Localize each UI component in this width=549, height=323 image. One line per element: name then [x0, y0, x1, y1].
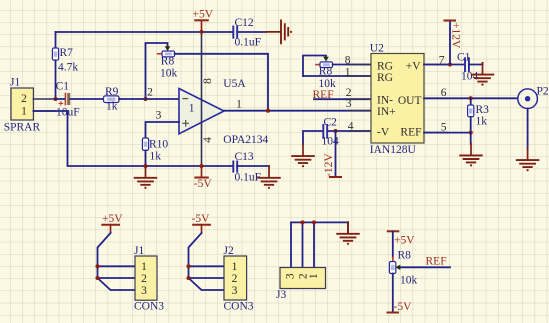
svg-text:REF: REF: [400, 127, 421, 139]
svg-text:+V: +V: [406, 60, 421, 72]
svg-text:1: 1: [236, 99, 242, 111]
svg-text:0.1uF: 0.1uF: [235, 172, 262, 184]
svg-text:J3: J3: [276, 289, 286, 301]
svg-text:2: 2: [141, 273, 147, 285]
svg-text:CON3: CON3: [134, 300, 164, 312]
wire C1 to ground: [469, 63, 482, 65]
svg-text:1: 1: [308, 273, 320, 279]
svg-text:+12V: +12V: [449, 22, 461, 49]
power +5V top rail: [193, 9, 214, 32]
wire U2 pin1: [303, 75, 371, 77]
capacitor C13: [233, 151, 261, 184]
svg-text:J1: J1: [10, 77, 20, 89]
svg-text:10k: 10k: [160, 67, 178, 79]
wire op-amp output to U2 IN+: [224, 110, 371, 112]
ground (J3): [337, 222, 359, 245]
svg-text:R8: R8: [161, 56, 175, 68]
potentiometer R8 10k (U2 gain): [303, 56, 336, 91]
svg-text:IN+: IN+: [377, 106, 396, 118]
svg-text:8: 8: [345, 55, 351, 67]
svg-text:-V: -V: [377, 127, 390, 139]
power -5V (R8 REF pot): [388, 301, 413, 313]
svg-text:3: 3: [156, 110, 162, 122]
wire C13 to ground: [237, 165, 269, 167]
svg-text:3: 3: [285, 273, 297, 279]
ground (C2): [292, 144, 314, 167]
wire U2 pin6 OUT to P2: [424, 97, 518, 99]
node input junction: [53, 97, 57, 101]
connector J1 CON3: [134, 245, 164, 312]
resistor R3 1k: [468, 98, 490, 132]
svg-text:3: 3: [346, 98, 352, 110]
svg-text:R10: R10: [149, 139, 168, 151]
svg-text:1: 1: [141, 261, 147, 273]
wire R7 bottom to input node: [55, 60, 57, 99]
svg-text:REF: REF: [426, 256, 447, 268]
svg-text:3: 3: [141, 285, 147, 297]
node feedback junction: [143, 97, 147, 101]
node J3 pin2 junction: [300, 220, 304, 224]
svg-text:-5V: -5V: [194, 178, 213, 190]
wire U2 pin8: [333, 64, 371, 66]
ground (R3/REF): [460, 144, 482, 167]
svg-text:4.7k: 4.7k: [58, 61, 78, 73]
resistor R9 1k: [104, 86, 120, 112]
wire +5V rail to C12: [56, 31, 234, 33]
svg-text:4: 4: [202, 137, 214, 143]
svg-text:SPRAR: SPRAR: [4, 122, 41, 134]
power -12V: [323, 131, 341, 177]
wire REF arrow to R8 wiper: [395, 256, 450, 270]
svg-text:IN-: IN-: [377, 95, 393, 107]
capacitor C1 10uF (electrolytic): [56, 81, 104, 119]
svg-text:2: 2: [147, 87, 153, 99]
svg-text:RG: RG: [377, 72, 393, 84]
capacitor C12: [233, 17, 261, 48]
wire +5V to J1 pins: [98, 233, 136, 290]
connector P2: [518, 86, 549, 109]
svg-text:-5V: -5V: [192, 213, 211, 225]
ground (P2): [517, 148, 539, 171]
svg-text:R7: R7: [60, 47, 74, 59]
svg-text:-5V: -5V: [394, 301, 413, 313]
wire to ground below R3: [470, 133, 472, 144]
connector J2 CON3: [224, 245, 254, 312]
svg-text:R3: R3: [476, 104, 490, 116]
power +12V: [445, 21, 462, 65]
node J2 pin1 junction: [186, 264, 190, 268]
wire U2 pin2 REF: [314, 98, 371, 100]
svg-text:OUT: OUT: [398, 95, 422, 107]
node -12V junction: [333, 129, 337, 133]
node output junction: [266, 109, 270, 113]
potentiometer R8 10k (REF): [389, 231, 417, 312]
svg-text:1k: 1k: [150, 150, 162, 162]
svg-text:RG: RG: [377, 60, 393, 72]
svg-text:0.1uF: 0.1uF: [235, 36, 262, 48]
svg-text:6: 6: [441, 87, 447, 99]
wire J1 pin1 to lower rail: [33, 111, 233, 166]
svg-text:CON3: CON3: [224, 300, 254, 312]
node R3 top junction: [469, 96, 473, 100]
svg-text:3: 3: [232, 285, 238, 297]
node J1 pin2 junction: [95, 276, 99, 280]
node op-amp pin8 power junction: [199, 30, 203, 34]
svg-text:1: 1: [21, 105, 27, 117]
svg-text:1: 1: [232, 261, 238, 273]
svg-text:8: 8: [202, 78, 214, 84]
power -5V (J2 CON3): [192, 213, 211, 233]
svg-text:2: 2: [346, 87, 352, 99]
svg-text:C2: C2: [324, 117, 338, 129]
connector J3: [276, 268, 326, 301]
wire U2 pin5 REF: [424, 132, 471, 134]
op-amp U5A OPA2134: [147, 32, 268, 166]
svg-text:U5A: U5A: [223, 78, 246, 90]
capacitor C2 104: [322, 117, 340, 148]
node lower rail ground junction: [143, 164, 147, 168]
node +12V junction: [448, 62, 452, 66]
ground (C13): [258, 166, 280, 189]
node REF ground junction: [469, 131, 473, 135]
wire C2 to U2 pin4: [327, 130, 371, 132]
wire R7 top to rail: [55, 32, 57, 48]
ground (+12V C1): [472, 63, 494, 86]
svg-text:1: 1: [345, 66, 351, 78]
resistor R7 4.7k: [52, 47, 78, 73]
wire P2 to ground: [527, 109, 529, 149]
node J2 pin2 junction: [186, 276, 190, 280]
svg-text:OPA2134: OPA2134: [223, 134, 268, 146]
svg-text:-12V: -12V: [323, 153, 335, 177]
svg-text:104: 104: [461, 71, 479, 83]
wire U2 pin4 to C2: [303, 131, 323, 145]
resistor R10 1k: [142, 138, 168, 166]
svg-text:IAN128U: IAN128U: [370, 144, 417, 156]
IC U2 IAN128U: [345, 43, 447, 156]
svg-text:10k: 10k: [400, 274, 418, 286]
node op-amp pin4 junction: [199, 164, 203, 168]
potentiometer R8 10k (feedback): [158, 46, 178, 79]
capacitor C1 104 (U2 supply): [457, 51, 479, 82]
wire R9 to op-amp pin2: [119, 98, 179, 100]
svg-text:4: 4: [348, 121, 354, 133]
svg-text:5: 5: [441, 121, 447, 133]
wire J3 pins to ground rail: [291, 222, 348, 267]
svg-text:1k: 1k: [476, 115, 488, 127]
power -5V (op-amp): [194, 166, 213, 190]
svg-text:C1: C1: [56, 81, 70, 93]
wire R8 right lead to output node: [175, 54, 268, 111]
power +5V (R8 REF pot): [388, 231, 415, 246]
power +5V (J1 CON3): [102, 213, 123, 233]
ground (sideways, top rail): [266, 21, 292, 44]
wire R8 wiper to inverting node: [146, 43, 168, 99]
svg-text:+5V: +5V: [102, 213, 123, 225]
wire C12 to ground: [237, 31, 266, 33]
svg-text:1k: 1k: [106, 101, 118, 113]
node J1 pin1 junction: [95, 264, 99, 268]
node J3 pin1 junction: [312, 220, 316, 224]
wire op-amp pin3: [146, 122, 180, 138]
svg-text:1: 1: [189, 103, 195, 115]
ground (lower rail): [135, 166, 157, 189]
svg-text:U2: U2: [370, 43, 384, 55]
svg-text:+5V: +5V: [193, 9, 214, 21]
svg-text:+5V: +5V: [394, 234, 415, 246]
wire U2 pin7: [424, 64, 465, 66]
svg-text:P2: P2: [537, 86, 549, 98]
svg-text:2: 2: [21, 93, 27, 105]
svg-text:2: 2: [232, 273, 238, 285]
wire -5V to J2 pins: [189, 233, 225, 290]
svg-text:R8: R8: [398, 249, 412, 261]
connector J1 SPRAR: [4, 77, 56, 134]
